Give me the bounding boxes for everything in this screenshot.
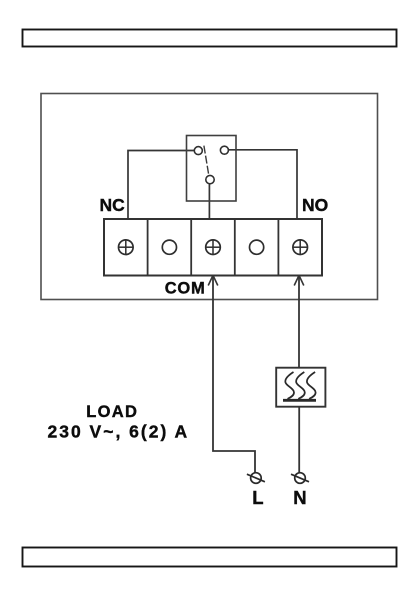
terminal N xyxy=(291,473,309,484)
svg-text:LOAD: LOAD xyxy=(86,403,138,421)
terminal 2 (unused) xyxy=(162,240,176,254)
screw terminal 1 (NC) xyxy=(118,239,134,255)
wire COM contact to COM terminal xyxy=(208,184,210,219)
terminal block xyxy=(104,219,322,276)
label LOAD xyxy=(86,403,138,421)
header box xyxy=(23,30,397,47)
label L xyxy=(252,487,263,508)
terminal 4 (unused) xyxy=(250,240,264,254)
heater element xyxy=(276,368,325,407)
svg-text:NO: NO xyxy=(302,195,328,215)
svg-text:230 V~, 6(2) A: 230 V~, 6(2) A xyxy=(48,421,190,441)
label N xyxy=(293,487,306,508)
relay NC contact pin xyxy=(194,147,202,155)
relay COM contact pin xyxy=(206,175,214,183)
wire NO contact to NO terminal xyxy=(228,150,297,219)
screw terminal 3 (COM) xyxy=(205,239,221,255)
wire NO terminal to heater xyxy=(298,277,300,368)
label NO xyxy=(302,195,328,215)
wire heater to terminal N xyxy=(298,407,300,473)
relay NO contact pin xyxy=(220,146,228,154)
label load rating 230 V~, 6(2) A xyxy=(48,421,190,441)
wire COM terminal to terminal L xyxy=(213,277,255,473)
svg-text:COM: COM xyxy=(165,279,206,297)
svg-text:N: N xyxy=(293,487,306,508)
relay switch S1 xyxy=(187,136,237,202)
screw terminal 5 (NO) xyxy=(292,239,308,255)
arrowhead into NO terminal xyxy=(294,275,304,285)
terminal L xyxy=(247,473,265,484)
label NC xyxy=(100,195,126,215)
svg-text:L: L xyxy=(252,487,263,508)
svg-text:NC: NC xyxy=(100,195,126,215)
thermostat body outline xyxy=(41,94,378,300)
label COM xyxy=(165,279,206,297)
arrowhead into COM terminal xyxy=(208,275,218,285)
relay armature lever xyxy=(204,146,209,175)
wire NC contact to NC terminal xyxy=(128,151,194,220)
footer box xyxy=(23,548,397,567)
